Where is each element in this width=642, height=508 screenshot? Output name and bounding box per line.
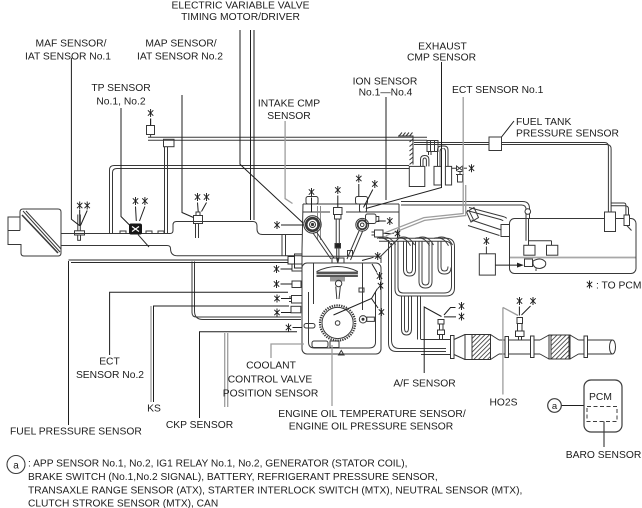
svg-text:No.1—No.4: No.1—No.4 xyxy=(359,88,413,99)
svg-text:IAT SENSOR No.1: IAT SENSOR No.1 xyxy=(25,52,111,63)
svg-text:EXHAUST: EXHAUST xyxy=(418,42,467,53)
svg-text:BARO SENSOR: BARO SENSOR xyxy=(566,450,642,461)
svg-text:: APP SENSOR No.1, No.2, IG1 R: : APP SENSOR No.1, No.2, IG1 RELAY No.1,… xyxy=(28,459,408,470)
svg-text:ION SENSOR: ION SENSOR xyxy=(353,77,418,88)
svg-text:TP SENSOR: TP SENSOR xyxy=(91,83,150,94)
svg-text:a: a xyxy=(552,401,558,412)
svg-text:IAT SENSOR No.2: IAT SENSOR No.2 xyxy=(137,52,223,63)
svg-text:ENGINE OIL TEMPERATURE SENSOR/: ENGINE OIL TEMPERATURE SENSOR/ xyxy=(278,409,466,420)
svg-text:BRAKE SWITCH (No.1,No.2 SIGNAL: BRAKE SWITCH (No.1,No.2 SIGNAL), BATTERY… xyxy=(28,472,438,483)
svg-text:TRANSAXLE RANGE SENSOR (ATX),: TRANSAXLE RANGE SENSOR (ATX), STARTER IN… xyxy=(28,486,522,497)
svg-text:MAF SENSOR/: MAF SENSOR/ xyxy=(36,39,107,50)
svg-text:a: a xyxy=(13,460,19,471)
svg-text:FUEL TANK: FUEL TANK xyxy=(516,117,571,128)
svg-text:COOLANT: COOLANT xyxy=(246,361,296,372)
svg-text:KS: KS xyxy=(147,404,161,415)
svg-text:CONTROL VALVE: CONTROL VALVE xyxy=(228,375,313,386)
svg-text:HO2S: HO2S xyxy=(489,398,517,409)
svg-text:ELECTRIC VARIABLE VALVE: ELECTRIC VARIABLE VALVE xyxy=(172,1,310,12)
svg-text:PRESSURE SENSOR: PRESSURE SENSOR xyxy=(516,129,619,140)
svg-text:MAP SENSOR/: MAP SENSOR/ xyxy=(145,39,216,50)
svg-text:SENSOR No.2: SENSOR No.2 xyxy=(76,370,144,381)
svg-text:: TO PCM: : TO PCM xyxy=(596,281,641,292)
svg-text:No.1, No.2: No.1, No.2 xyxy=(96,96,145,107)
svg-text:ECT SENSOR No.1: ECT SENSOR No.1 xyxy=(452,85,544,96)
svg-text:ECT: ECT xyxy=(99,357,120,368)
svg-text:CMP SENSOR: CMP SENSOR xyxy=(407,53,476,64)
svg-text:SENSOR: SENSOR xyxy=(267,111,311,122)
svg-text:FUEL PRESSURE SENSOR: FUEL PRESSURE SENSOR xyxy=(10,427,142,438)
svg-text:A/F SENSOR: A/F SENSOR xyxy=(393,379,455,390)
svg-text:INTAKE CMP: INTAKE CMP xyxy=(258,99,320,110)
svg-text:POSITION SENSOR: POSITION SENSOR xyxy=(223,389,319,400)
svg-text:TIMING MOTOR/DRIVER: TIMING MOTOR/DRIVER xyxy=(181,12,300,23)
svg-text:PCM: PCM xyxy=(589,392,612,403)
svg-text:CKP SENSOR: CKP SENSOR xyxy=(166,420,233,431)
svg-text:ENGINE OIL PRESSURE SENSOR: ENGINE OIL PRESSURE SENSOR xyxy=(289,422,453,433)
svg-text:CLUTCH STROKE SENSOR (MTX), C: CLUTCH STROKE SENSOR (MTX), CAN xyxy=(28,499,218,508)
